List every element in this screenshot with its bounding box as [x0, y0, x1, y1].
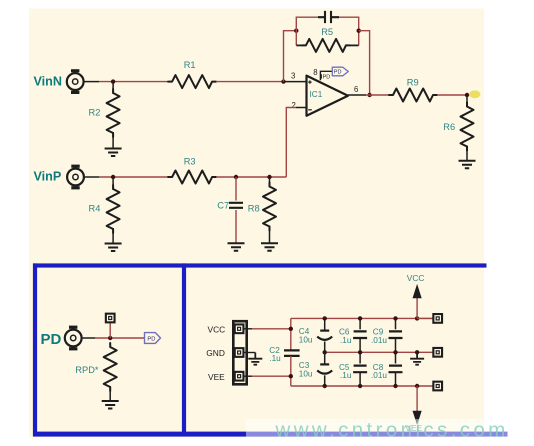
- svg-text:R4: R4: [89, 204, 101, 214]
- svg-text:.01u: .01u: [371, 371, 387, 380]
- svg-text:GND: GND: [206, 348, 225, 358]
- resistor R2: [107, 89, 120, 137]
- svg-text:R2: R2: [89, 108, 101, 118]
- watermark band: [246, 419, 534, 444]
- svg-text:VCC: VCC: [208, 325, 226, 335]
- connector P3 (BNC PD): [65, 326, 82, 351]
- wire GND rail: [325, 351, 434, 353]
- wire R5 left stub: [296, 44, 302, 46]
- connector P2 (BNC VinP): [67, 165, 84, 190]
- wire R6 top lead: [466, 95, 468, 107]
- node feedback left: [294, 29, 298, 33]
- wire pin2 net: [286, 108, 296, 178]
- power port VEE: [405, 386, 422, 433]
- node output junction: [367, 93, 371, 97]
- node VCC rail D: [415, 316, 419, 320]
- resistor R4: [107, 185, 120, 233]
- node feedback right: [357, 29, 361, 33]
- node VinN junction: [111, 79, 115, 83]
- node VEE rail B: [358, 384, 362, 388]
- opamp minus mark: [308, 109, 312, 111]
- capacitor C3: [317, 352, 332, 386]
- svg-text:R8: R8: [248, 204, 260, 214]
- resistor R1: [168, 75, 216, 88]
- wire R2 top lead: [112, 82, 114, 94]
- wire R4 top lead: [112, 177, 114, 190]
- capacitor C7: [229, 203, 243, 208]
- wire pin8 stub: [320, 71, 332, 80]
- power port VCC: [407, 273, 425, 318]
- wire VinN lead: [84, 81, 99, 83]
- capacitor C9: [389, 318, 403, 352]
- wire R8 bottom lead: [269, 226, 271, 244]
- svg-text:8: 8: [313, 68, 317, 77]
- wire feedback loop right: [339, 17, 359, 45]
- op-amp IC1: [307, 76, 349, 116]
- wire GND pin lead: [244, 352, 256, 354]
- svg-text:VinP: VinP: [34, 170, 62, 184]
- panel middle blue border: [182, 263, 186, 436]
- wire C7 bottom: [235, 210, 237, 243]
- node VinP junction: [111, 175, 115, 179]
- resistor R3: [168, 171, 216, 184]
- ground below R6: [459, 161, 476, 169]
- panel left blue border: [33, 263, 37, 436]
- capacitor C8: [389, 352, 403, 386]
- pad TP1: [106, 314, 115, 323]
- capacitor C6: [353, 318, 367, 352]
- wire testpoint stub: [109, 322, 111, 338]
- node VCC tap: [289, 327, 293, 331]
- wire pin3 lead: [286, 81, 307, 83]
- node VCC rail C: [393, 316, 397, 320]
- pin J1-1 VCC: [235, 324, 244, 333]
- capacitor C2: [284, 350, 300, 356]
- svg-text:.1u: .1u: [340, 371, 352, 380]
- svg-text:R3: R3: [184, 157, 196, 167]
- resistor RPD: [104, 343, 117, 391]
- wire C2 column upper: [290, 318, 292, 350]
- wire VCC rail: [291, 317, 434, 319]
- wire R2 bottom lead: [112, 132, 114, 149]
- output highlight blob: [469, 90, 480, 98]
- wire VinN to R1: [99, 81, 168, 83]
- svg-text:10u: 10u: [299, 335, 313, 344]
- node VEE tap: [289, 374, 293, 378]
- wire VCC pin lead: [244, 328, 253, 330]
- node VCC rail A: [323, 316, 327, 320]
- wire output to R9: [366, 94, 389, 96]
- svg-text:R5: R5: [321, 27, 333, 37]
- wire feedback loop left: [296, 17, 318, 45]
- svg-text:PD: PD: [147, 337, 155, 343]
- wire R3 to pin2 riser: [216, 176, 286, 178]
- node VCC rail B: [358, 316, 362, 320]
- svg-text:VinN: VinN: [34, 75, 62, 89]
- wire R9 to output node: [437, 94, 467, 96]
- wire pin2 lead: [296, 107, 307, 109]
- wire RPD bottom lead: [109, 386, 111, 401]
- svg-text:PD: PD: [323, 74, 331, 80]
- connector J1 body: [233, 321, 246, 384]
- opamp plus mark: [308, 80, 311, 83]
- wire PD lead: [82, 337, 95, 339]
- node VEE rail A: [323, 384, 327, 388]
- wire R6 bottom lead: [466, 146, 468, 161]
- svg-text:C7: C7: [217, 201, 229, 211]
- svg-text:.1u: .1u: [269, 354, 281, 363]
- ground below RPD: [102, 401, 119, 409]
- wire C7 top: [235, 177, 237, 201]
- pad VEE out: [433, 382, 442, 391]
- wire R1 to opamp: [216, 81, 286, 83]
- wire R8 top lead: [269, 177, 271, 188]
- ground at GND pin: [248, 353, 262, 365]
- node output right junction: [465, 93, 469, 97]
- bottom blue border line: [33, 432, 508, 437]
- svg-text:PD: PD: [41, 331, 62, 348]
- node C7 junction: [234, 175, 238, 179]
- connector P1 (BNC VinN): [67, 69, 84, 94]
- svg-text:RPD*: RPD*: [75, 365, 99, 375]
- svg-text:.01u: .01u: [371, 336, 387, 345]
- wire feedback left riser: [284, 31, 297, 82]
- pin J1-2 GND: [235, 348, 244, 357]
- wire VEE rail: [291, 385, 434, 387]
- wire R4 bottom lead: [112, 228, 114, 244]
- wire pin6 lead: [348, 94, 366, 96]
- wire VinP lead: [84, 176, 99, 178]
- resistor R5: [302, 39, 350, 52]
- pin name PD (pin 8): [322, 74, 331, 80]
- pad GND out: [433, 348, 442, 357]
- ground below C7: [228, 243, 245, 251]
- node PD junction: [108, 336, 112, 340]
- capacitor C1 (feedback): [318, 11, 339, 23]
- node GND rail C: [393, 350, 397, 354]
- svg-text:R6: R6: [443, 122, 455, 132]
- wire C2 column lower: [290, 356, 292, 386]
- svg-text:VEE: VEE: [208, 372, 225, 382]
- svg-text:R1: R1: [184, 60, 196, 70]
- capacitor C4: [317, 318, 332, 352]
- svg-text:3: 3: [291, 72, 295, 81]
- ground below R2: [105, 149, 122, 157]
- svg-text:PD: PD: [334, 70, 342, 76]
- port PD flag: [145, 333, 161, 344]
- capacitor C5: [353, 352, 367, 386]
- ground at GND rail end: [410, 352, 424, 364]
- wire R5 right stub: [350, 44, 359, 46]
- ground below R4: [105, 244, 122, 252]
- svg-text:6: 6: [354, 85, 358, 94]
- wire VCC pin to C2 column: [252, 328, 291, 330]
- wire VEE pin lead: [244, 375, 253, 377]
- node GND rail B: [358, 350, 362, 354]
- node VEE rail C: [393, 384, 397, 388]
- pad VCC out: [433, 314, 442, 323]
- node pin3 junction: [281, 79, 285, 83]
- wire VEE pin to C2 column: [252, 375, 291, 377]
- wire VCC rail to pad: [417, 317, 434, 319]
- node GND rail A: [323, 350, 327, 354]
- node GND rail D: [415, 350, 419, 354]
- wire feedback right riser: [359, 31, 370, 95]
- svg-text:.1u: .1u: [340, 336, 352, 345]
- node VEE rail D: [415, 384, 419, 388]
- svg-text:VCC: VCC: [407, 273, 425, 283]
- svg-text:R9: R9: [407, 78, 419, 88]
- port PD (to pin 8): [332, 67, 348, 76]
- wire VinP to R3: [99, 176, 168, 178]
- resistor R6: [461, 103, 474, 151]
- svg-text:10u: 10u: [299, 369, 313, 378]
- node R8 junction: [267, 175, 271, 179]
- divider blue line horizontal: [33, 263, 487, 267]
- resistor R8: [263, 183, 276, 231]
- pin J1-3 VEE: [235, 372, 244, 381]
- svg-text:IC1: IC1: [310, 90, 323, 99]
- wire PD net: [95, 337, 145, 339]
- resistor R9: [389, 89, 437, 102]
- svg-text:2: 2: [292, 101, 296, 110]
- svg-text:www.cntronics.com: www.cntronics.com: [275, 419, 509, 442]
- ground below R8: [261, 243, 278, 251]
